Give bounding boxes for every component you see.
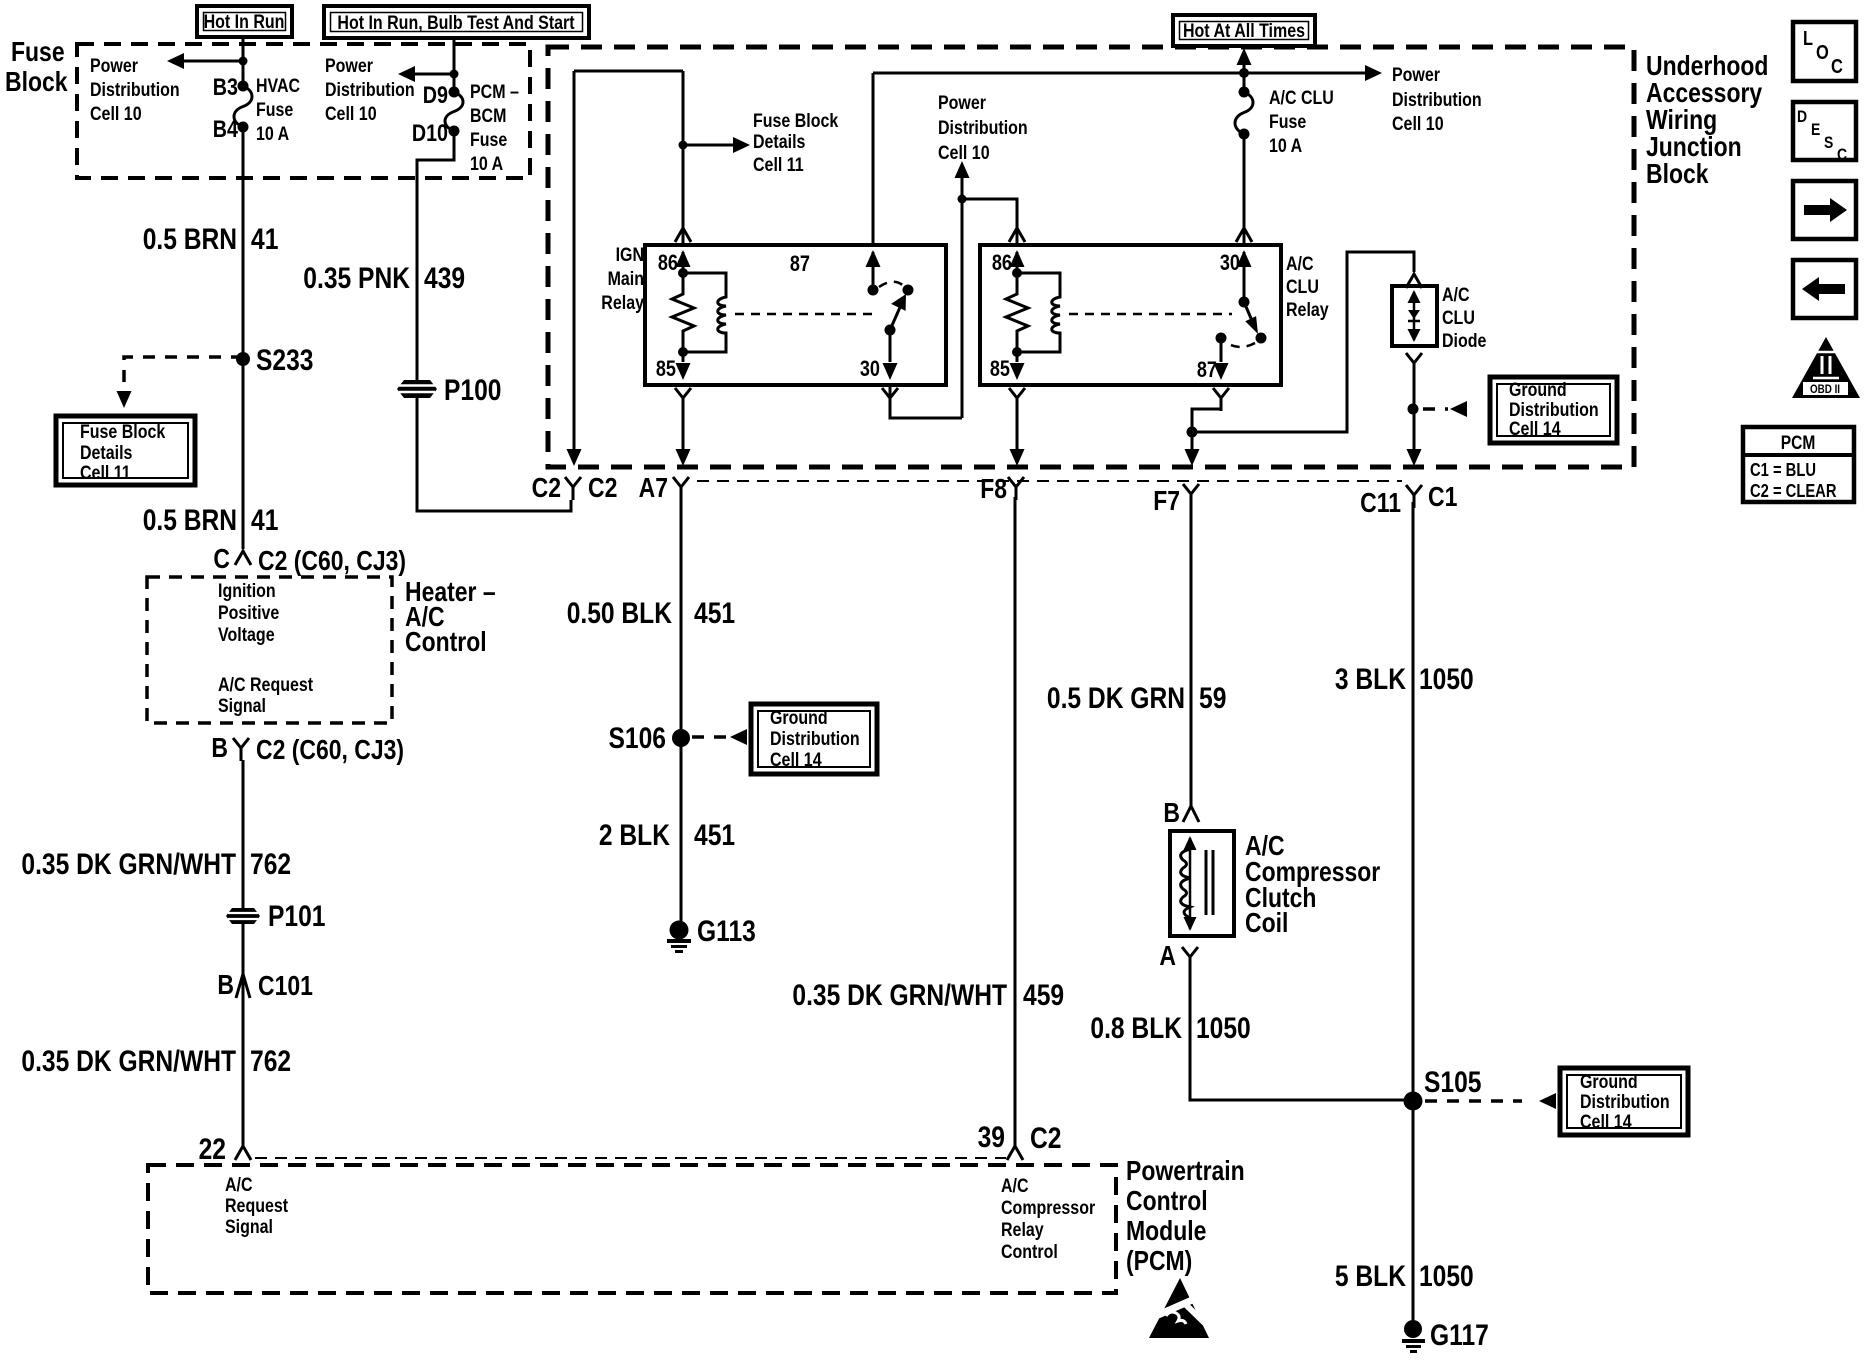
svg-text:451: 451 bbox=[694, 597, 735, 630]
svg-text:41: 41 bbox=[251, 223, 278, 256]
svg-text:Cell 14: Cell 14 bbox=[770, 749, 822, 771]
svg-text:OBD II: OBD II bbox=[1810, 382, 1840, 396]
svg-text:87: 87 bbox=[790, 251, 810, 276]
svg-text:C101: C101 bbox=[258, 970, 313, 1001]
svg-text:Cell 10: Cell 10 bbox=[325, 103, 377, 125]
svg-text:30: 30 bbox=[860, 356, 880, 381]
svg-text:Fuse: Fuse bbox=[256, 99, 293, 121]
svg-text:B3: B3 bbox=[213, 74, 238, 101]
svg-text:G113: G113 bbox=[697, 915, 756, 948]
svg-text:Distribution: Distribution bbox=[1580, 1091, 1670, 1113]
svg-text:L: L bbox=[1803, 28, 1813, 50]
svg-text:D9: D9 bbox=[423, 82, 448, 109]
svg-text:P100: P100 bbox=[444, 374, 502, 407]
svg-text:Ground: Ground bbox=[1580, 1071, 1638, 1093]
svg-text:0.35 PNK: 0.35 PNK bbox=[303, 262, 410, 295]
svg-text:0.35 DK GRN/WHT: 0.35 DK GRN/WHT bbox=[21, 1045, 236, 1078]
svg-text:Signal: Signal bbox=[225, 1216, 273, 1238]
svg-text:Cell 10: Cell 10 bbox=[1392, 113, 1444, 135]
svg-text:Signal: Signal bbox=[218, 695, 266, 717]
svg-text:87: 87 bbox=[1197, 357, 1217, 382]
svg-text:E: E bbox=[1811, 120, 1820, 139]
svg-text:C1 = BLU: C1 = BLU bbox=[1750, 460, 1816, 480]
svg-text:CLU: CLU bbox=[1286, 276, 1319, 298]
svg-text:PCM –: PCM – bbox=[470, 81, 519, 103]
svg-text:C2: C2 bbox=[588, 472, 617, 503]
svg-text:Fuse Block: Fuse Block bbox=[753, 110, 838, 132]
svg-text:A/C CLU: A/C CLU bbox=[1269, 87, 1334, 109]
svg-text:Cell 10: Cell 10 bbox=[938, 142, 990, 164]
svg-text:Control: Control bbox=[405, 626, 487, 657]
svg-text:10 A: 10 A bbox=[256, 123, 289, 145]
svg-text:O: O bbox=[1816, 42, 1829, 64]
svg-text:439: 439 bbox=[424, 262, 465, 295]
svg-text:A/C Request: A/C Request bbox=[218, 674, 314, 696]
svg-text:Diode: Diode bbox=[1442, 330, 1487, 352]
svg-text:B4: B4 bbox=[213, 116, 239, 143]
svg-text:5 BLK: 5 BLK bbox=[1335, 1260, 1406, 1293]
svg-text:Power: Power bbox=[90, 55, 138, 77]
svg-text:A: A bbox=[1159, 940, 1176, 971]
svg-text:Cell 14: Cell 14 bbox=[1509, 418, 1561, 440]
svg-text:Control: Control bbox=[1126, 1185, 1208, 1216]
svg-text:10 A: 10 A bbox=[470, 153, 503, 175]
svg-text:Powertrain: Powertrain bbox=[1126, 1155, 1245, 1186]
svg-text:B: B bbox=[217, 969, 234, 1000]
svg-text:Distribution: Distribution bbox=[90, 79, 180, 101]
svg-text:459: 459 bbox=[1023, 979, 1064, 1012]
svg-text:A/C: A/C bbox=[1286, 253, 1314, 275]
svg-text:Relay: Relay bbox=[601, 292, 644, 314]
svg-text:S: S bbox=[1824, 133, 1833, 152]
svg-text:59: 59 bbox=[1199, 682, 1226, 715]
svg-text:C11: C11 bbox=[1360, 487, 1401, 518]
svg-text:Power: Power bbox=[938, 92, 986, 114]
svg-text:3 BLK: 3 BLK bbox=[1335, 663, 1406, 696]
svg-text:HVAC: HVAC bbox=[256, 75, 300, 97]
svg-text:D10: D10 bbox=[412, 120, 448, 147]
svg-text:41: 41 bbox=[251, 504, 278, 537]
svg-text:Compressor: Compressor bbox=[1001, 1197, 1096, 1219]
svg-text:C2: C2 bbox=[1030, 1122, 1062, 1155]
svg-text:D: D bbox=[1797, 107, 1807, 126]
svg-text:C: C bbox=[1837, 145, 1847, 164]
svg-text:C2 (C60, CJ3): C2 (C60, CJ3) bbox=[256, 734, 404, 765]
svg-text:IGN: IGN bbox=[616, 244, 644, 266]
svg-text:S105: S105 bbox=[1424, 1066, 1482, 1099]
svg-text:Power: Power bbox=[325, 55, 373, 77]
svg-text:86: 86 bbox=[992, 250, 1012, 275]
svg-text:Power: Power bbox=[1392, 64, 1440, 86]
svg-text:Ground: Ground bbox=[1509, 379, 1567, 401]
svg-text:Cell 14: Cell 14 bbox=[1580, 1111, 1632, 1133]
svg-text:0.50 BLK: 0.50 BLK bbox=[567, 597, 673, 630]
svg-text:Block: Block bbox=[5, 66, 68, 97]
svg-text:A/C: A/C bbox=[1001, 1175, 1029, 1197]
svg-text:C2 = CLEAR: C2 = CLEAR bbox=[1750, 481, 1837, 501]
svg-text:Distribution: Distribution bbox=[938, 117, 1028, 139]
svg-text:Fuse: Fuse bbox=[1269, 111, 1306, 133]
svg-text:Ignition: Ignition bbox=[218, 580, 276, 602]
svg-text:1050: 1050 bbox=[1419, 1260, 1474, 1293]
svg-text:30: 30 bbox=[1220, 250, 1240, 275]
svg-text:Distribution: Distribution bbox=[770, 728, 860, 750]
svg-text:85: 85 bbox=[656, 356, 676, 381]
svg-text:0.5 BRN: 0.5 BRN bbox=[143, 504, 237, 537]
svg-text:Control: Control bbox=[1001, 1241, 1058, 1263]
svg-text:Positive: Positive bbox=[218, 602, 279, 624]
svg-text:Relay: Relay bbox=[1286, 299, 1329, 321]
svg-text:Block: Block bbox=[1646, 158, 1709, 189]
svg-text:86: 86 bbox=[658, 250, 678, 275]
svg-text:G117: G117 bbox=[1430, 1319, 1489, 1352]
svg-text:0.8 BLK: 0.8 BLK bbox=[1090, 1012, 1182, 1045]
svg-text:Hot In Run, Bulb Test And Star: Hot In Run, Bulb Test And Start bbox=[337, 12, 575, 34]
svg-text:Ground: Ground bbox=[770, 707, 828, 729]
svg-text:C: C bbox=[213, 543, 230, 574]
svg-text:Main: Main bbox=[608, 268, 644, 290]
svg-text:762: 762 bbox=[250, 848, 291, 881]
svg-text:(PCM): (PCM) bbox=[1126, 1245, 1192, 1276]
svg-text:451: 451 bbox=[694, 819, 735, 852]
svg-text:Hot At All Times: Hot At All Times bbox=[1183, 20, 1305, 42]
svg-text:Voltage: Voltage bbox=[218, 624, 275, 646]
svg-text:Distribution: Distribution bbox=[325, 79, 415, 101]
svg-text:Fuse Block: Fuse Block bbox=[80, 421, 165, 443]
svg-text:CLU: CLU bbox=[1442, 307, 1475, 329]
svg-text:0.5 BRN: 0.5 BRN bbox=[143, 223, 237, 256]
svg-text:Cell 10: Cell 10 bbox=[90, 103, 142, 125]
svg-text:Details: Details bbox=[753, 131, 806, 153]
svg-text:Coil: Coil bbox=[1245, 907, 1288, 938]
svg-text:Module: Module bbox=[1126, 1215, 1206, 1246]
svg-text:0.35 DK GRN/WHT: 0.35 DK GRN/WHT bbox=[792, 979, 1007, 1012]
svg-text:1050: 1050 bbox=[1419, 663, 1474, 696]
svg-text:Cell 11: Cell 11 bbox=[80, 462, 131, 484]
svg-text:B: B bbox=[211, 732, 228, 763]
svg-text:C2: C2 bbox=[532, 472, 561, 503]
svg-text:A/C: A/C bbox=[225, 1174, 253, 1196]
svg-text:A7: A7 bbox=[639, 472, 668, 503]
svg-text:Hot In Run: Hot In Run bbox=[204, 11, 285, 33]
svg-text:S233: S233 bbox=[256, 344, 314, 377]
svg-text:C2 (C60, CJ3): C2 (C60, CJ3) bbox=[258, 545, 406, 576]
svg-text:Distribution: Distribution bbox=[1392, 89, 1482, 111]
svg-text:2 BLK: 2 BLK bbox=[599, 819, 670, 852]
svg-text:F7: F7 bbox=[1153, 485, 1180, 516]
svg-text:10 A: 10 A bbox=[1269, 135, 1302, 157]
svg-text:22: 22 bbox=[199, 1133, 226, 1166]
svg-text:B: B bbox=[1163, 797, 1180, 828]
svg-text:Cell 11: Cell 11 bbox=[753, 154, 804, 176]
svg-text:85: 85 bbox=[990, 356, 1010, 381]
svg-text:S106: S106 bbox=[609, 722, 667, 755]
svg-text:PCM: PCM bbox=[1781, 433, 1816, 454]
svg-text:0.5 DK GRN: 0.5 DK GRN bbox=[1047, 682, 1185, 715]
svg-text:Details: Details bbox=[80, 442, 133, 464]
svg-text:C1: C1 bbox=[1428, 481, 1457, 512]
svg-text:1050: 1050 bbox=[1196, 1012, 1251, 1045]
svg-text:C: C bbox=[1831, 56, 1843, 78]
svg-text:A/C: A/C bbox=[1442, 284, 1470, 306]
svg-text:Request: Request bbox=[225, 1195, 289, 1217]
svg-text:0.35 DK GRN/WHT: 0.35 DK GRN/WHT bbox=[21, 848, 236, 881]
svg-text:BCM: BCM bbox=[470, 105, 506, 127]
svg-text:Relay: Relay bbox=[1001, 1219, 1044, 1241]
svg-text:F8: F8 bbox=[980, 473, 1007, 504]
svg-text:P101: P101 bbox=[268, 900, 326, 933]
svg-text:Fuse: Fuse bbox=[470, 129, 507, 151]
svg-text:762: 762 bbox=[250, 1045, 291, 1078]
svg-text:39: 39 bbox=[978, 1121, 1005, 1154]
svg-text:Fuse: Fuse bbox=[11, 36, 65, 67]
